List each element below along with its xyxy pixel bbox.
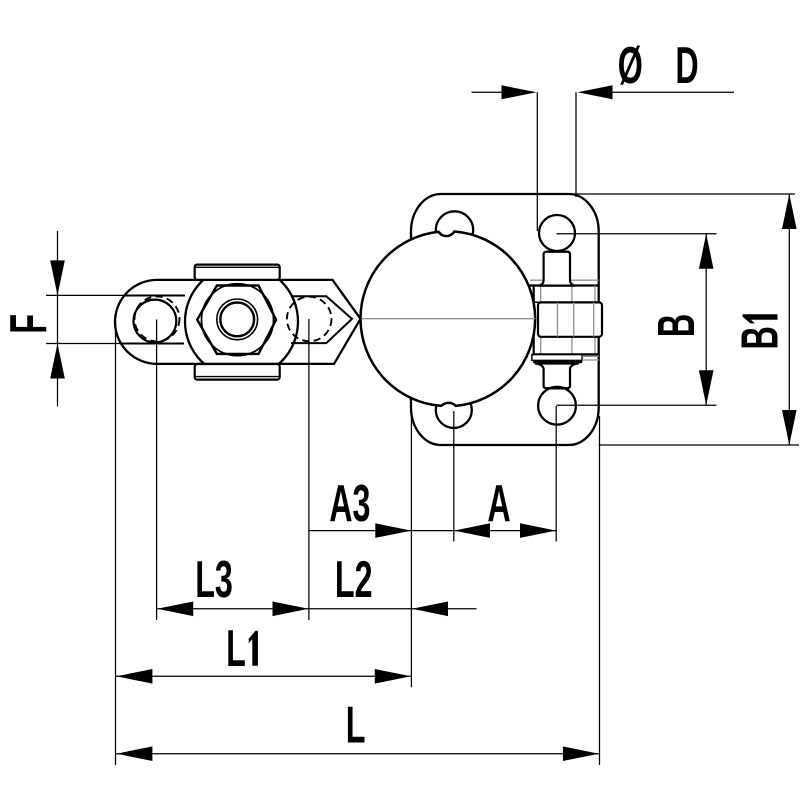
dim L arrows xyxy=(116,746,152,761)
flange hole bottom xyxy=(436,392,472,428)
ext line flange left edge xyxy=(410,416,412,687)
serrated plate top inner line xyxy=(196,266,280,268)
PART_RIGHT xyxy=(361,194,603,445)
dim B1 line xyxy=(788,194,790,445)
dim F line xyxy=(57,231,59,406)
dim F ext lines xyxy=(46,295,126,343)
serrated plate bottom xyxy=(195,364,280,380)
ext line oblong left edge xyxy=(115,322,117,765)
ball pin bottom xyxy=(538,387,576,425)
boss circle around nut xyxy=(185,265,298,378)
inner plate right chevron xyxy=(291,296,352,343)
thread inner circle xyxy=(220,303,254,337)
washer grey lines right xyxy=(582,356,599,360)
svg-text:L2: L2 xyxy=(335,551,373,609)
dim B arrows xyxy=(699,234,714,269)
socket upper band grey verticals xyxy=(541,286,595,303)
ball equator line xyxy=(361,318,535,320)
dim L1 arrows xyxy=(116,669,152,684)
dim B1 ext lines xyxy=(565,194,799,445)
svg-text:A: A xyxy=(487,475,510,533)
dim A3-A line xyxy=(309,530,556,532)
svg-text:L3: L3 xyxy=(195,551,233,609)
PART_LEFT xyxy=(115,265,361,380)
svg-text:Ø: Ø xyxy=(618,37,643,95)
serrated plate top xyxy=(195,265,280,280)
ext line left hole center xyxy=(156,320,158,621)
ext line ball pin center xyxy=(555,406,557,542)
dim L3-L2 line xyxy=(157,608,477,610)
arm outline (stadium with pointed right end) xyxy=(115,280,361,364)
dim L2 arrow xyxy=(412,602,448,617)
ext line flange hole center xyxy=(453,411,455,542)
dim L line xyxy=(116,753,600,755)
ext line flange right edge xyxy=(599,416,601,765)
spherical washer circle over nut xyxy=(202,284,274,356)
label OD xyxy=(618,37,699,95)
dim OD lines xyxy=(472,92,735,231)
dim B1 arrows xyxy=(782,194,797,229)
svg-text:F: F xyxy=(0,314,58,334)
inner plate left edges xyxy=(122,296,185,344)
ball pin top xyxy=(539,215,575,251)
dim OD arrow left xyxy=(502,85,537,99)
dim L1 line xyxy=(116,675,411,677)
thread outer circle xyxy=(217,299,258,340)
right hole dashed circle xyxy=(287,297,332,342)
svg-text:L: L xyxy=(226,620,246,678)
flange plate xyxy=(411,194,599,445)
left hole solid circle xyxy=(134,300,177,343)
socket upper band bottom edge xyxy=(534,301,599,303)
stem top neck line xyxy=(546,251,569,253)
dim L3 arrows xyxy=(157,602,193,617)
washer plate below socket xyxy=(532,355,582,361)
svg-text:B: B xyxy=(732,326,790,349)
stem top xyxy=(538,252,575,286)
svg-text:L: L xyxy=(346,697,366,755)
socket left edge xyxy=(533,286,535,355)
left hole dashed circle xyxy=(135,296,180,341)
socket bottom edge xyxy=(534,353,599,355)
ext line right hole center xyxy=(308,319,310,620)
socket mid band xyxy=(538,302,602,336)
dim B ext lines xyxy=(557,234,717,405)
big ball outline with notches xyxy=(361,232,536,406)
big ball white fill xyxy=(361,231,536,406)
socket lower band grey verticals xyxy=(541,337,595,354)
dim A3 arrow xyxy=(375,523,411,538)
svg-text:D: D xyxy=(675,37,698,95)
dark washer bar xyxy=(533,360,582,363)
hex nut xyxy=(197,286,276,354)
dim A arrows xyxy=(454,523,490,538)
svg-text:A3: A3 xyxy=(329,475,370,533)
dim B line xyxy=(705,234,707,405)
flange hole top xyxy=(436,211,473,248)
serrated plate bottom inner line xyxy=(196,376,280,378)
dim F arrows xyxy=(50,260,65,295)
stem bottom xyxy=(535,363,579,388)
socket mid band grey verticals xyxy=(558,302,594,336)
stem bottom neck line xyxy=(546,387,569,389)
socket top edge grey line xyxy=(530,279,599,281)
svg-text:B: B xyxy=(648,314,706,337)
socket body top edge xyxy=(528,284,599,286)
dim OD arrow right xyxy=(578,85,613,99)
